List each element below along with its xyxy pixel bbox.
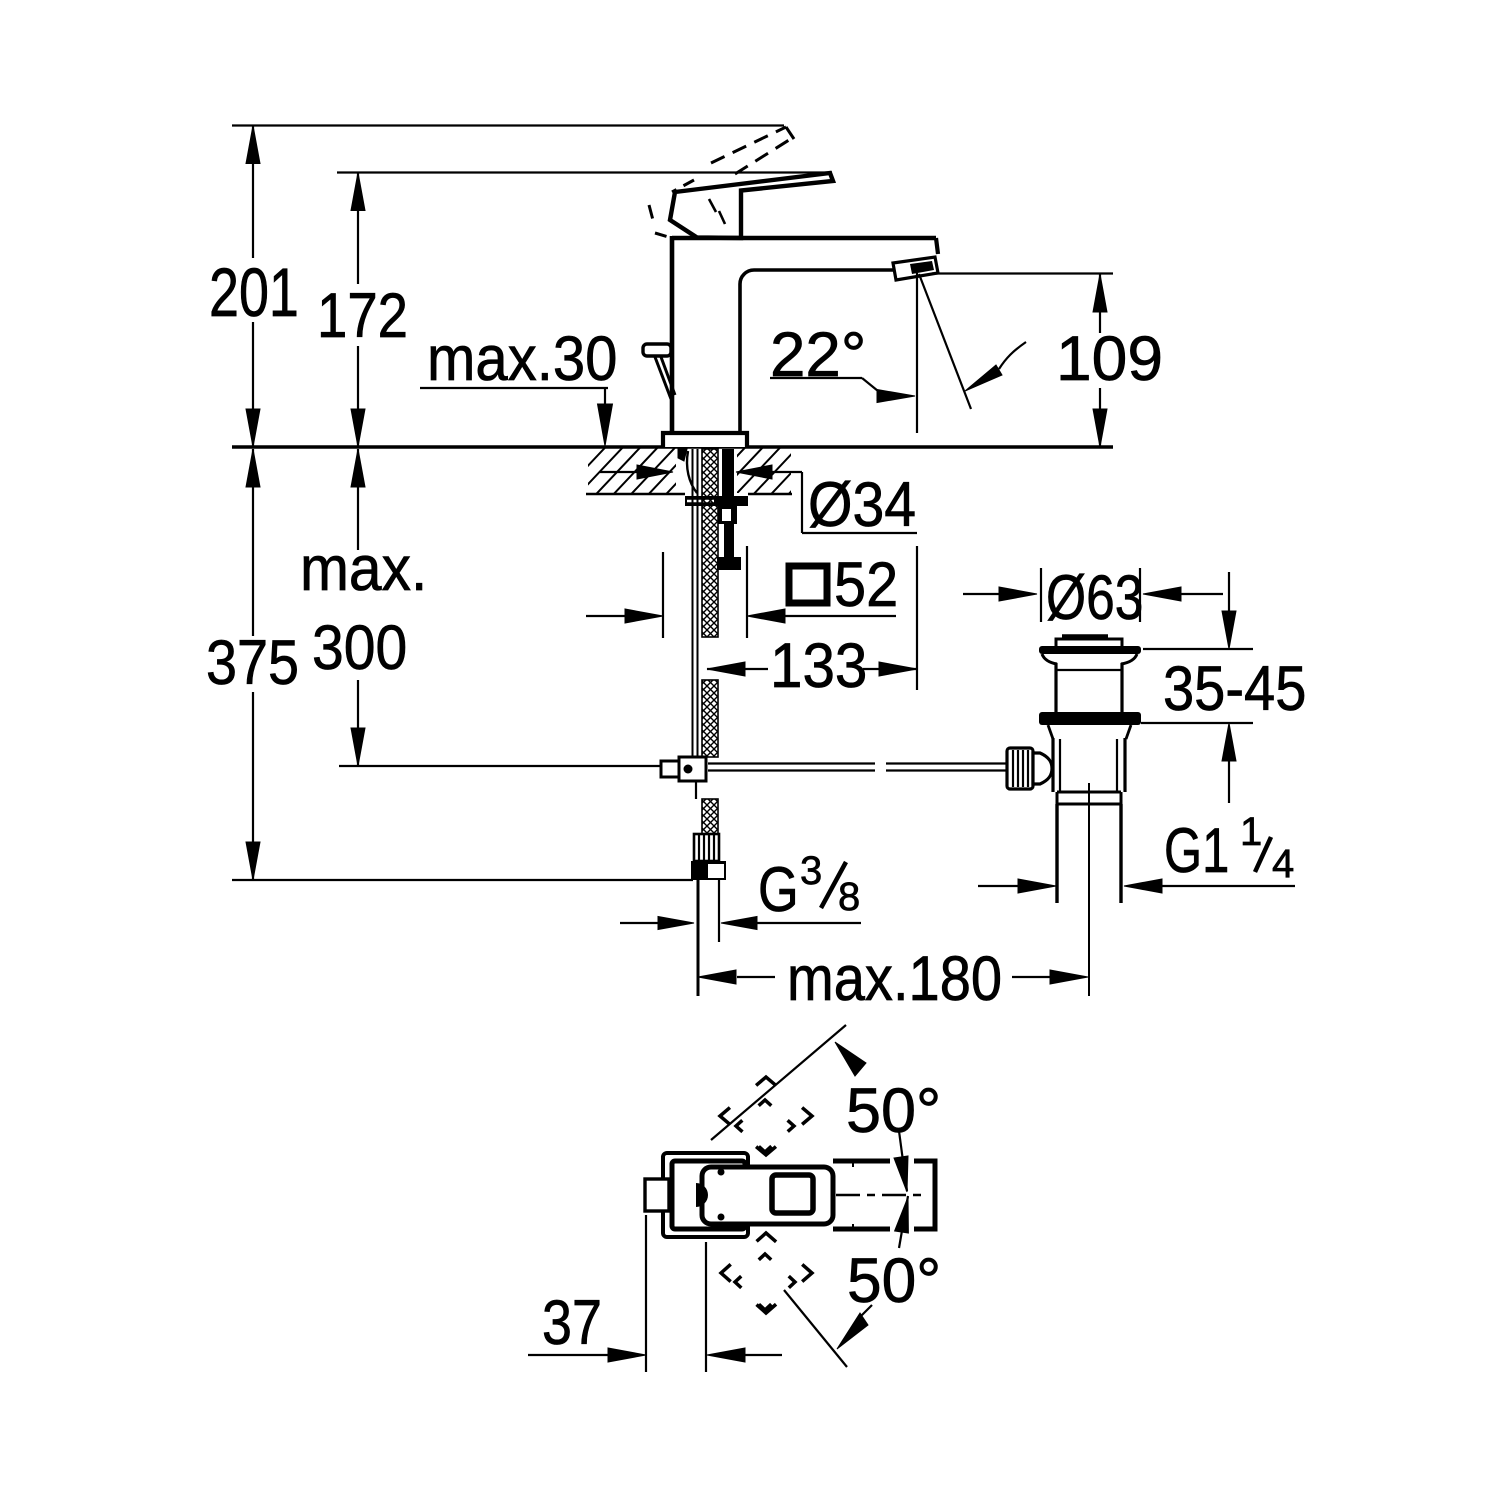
faucet handle raised position (dashed)	[711, 127, 786, 163]
svg-text:G1: G1	[1164, 816, 1229, 886]
top view centerline dash-dot	[836, 1194, 926, 1196]
dim 35-45	[1143, 648, 1253, 650]
dim 52	[662, 552, 664, 638]
spout underside	[740, 270, 893, 433]
svg-text:1: 1	[1240, 810, 1262, 854]
valve knurled knob	[1007, 748, 1033, 789]
dim line max 375 vertical below counter	[252, 449, 254, 636]
top view cartridge D mark	[696, 1183, 708, 1207]
pop-up pull rod knob (side view)	[643, 344, 671, 356]
svg-text:max.30: max.30	[427, 324, 618, 394]
horizontal pop-up linkage rod	[708, 762, 875, 764]
svg-text:35-45: 35-45	[1163, 654, 1306, 724]
drain valve flange disc	[1039, 646, 1141, 654]
supply nut	[691, 861, 726, 880]
counter hatching	[540, 445, 853, 498]
braided supply hose (crosshatch)	[702, 449, 718, 637]
dashed handle rotated +50 (upper diamonds)	[720, 1077, 812, 1155]
svg-text:4: 4	[1272, 842, 1294, 886]
dim line 109 vertical	[1099, 274, 1101, 333]
curved rod inside hole	[687, 451, 697, 493]
dim line 172 vertical	[357, 173, 359, 285]
dim line max 300 vertical below counter	[357, 449, 359, 550]
mounting bracket below washer	[717, 506, 741, 570]
dim reference line 201 top	[232, 124, 784, 126]
svg-text:Ø34: Ø34	[808, 470, 916, 540]
rod stub below clamp	[695, 781, 697, 799]
water stream vertical reference	[916, 273, 918, 433]
top view handle	[702, 1167, 833, 1224]
mounting nut black bar right of hose	[722, 449, 734, 497]
dashed handle rotated -50 (lower diamonds)	[721, 1233, 812, 1313]
top view pop-up knob	[645, 1179, 669, 1211]
svg-text:G: G	[758, 855, 799, 925]
svg-text:max.: max.	[300, 534, 427, 604]
label square52 symbol	[789, 566, 827, 603]
svg-text:52: 52	[834, 550, 898, 620]
top view body square	[672, 1161, 745, 1229]
valve neck	[1054, 663, 1057, 713]
counter section bottom line	[586, 493, 685, 496]
dim G1 1/4	[978, 885, 1020, 887]
water stream 22deg line	[919, 274, 971, 409]
drain valve plug cap	[1062, 634, 1108, 637]
flange fillets	[1042, 654, 1057, 664]
dim max.180	[737, 976, 775, 978]
knob boss	[1033, 753, 1052, 784]
dim Ø34 arrows + leader	[600, 471, 639, 473]
top view base plate square	[663, 1153, 748, 1237]
pop-up rod vertical (double line)	[692, 449, 694, 757]
svg-text:133: 133	[770, 631, 867, 701]
svg-text:22°: 22°	[770, 320, 866, 390]
ref line 375 bottom	[232, 879, 693, 881]
svg-text:50°: 50°	[846, 1076, 941, 1146]
flange underside	[1048, 725, 1053, 739]
faucet handle (side view, solid)	[670, 173, 833, 238]
gasket (black)	[1039, 712, 1141, 725]
top view handle end cap	[772, 1175, 813, 1213]
ref line 109 top (outlet level)	[932, 272, 1113, 274]
svg-text:109: 109	[1056, 324, 1163, 394]
faucet body and spout outline	[672, 236, 936, 241]
50deg line lower	[784, 1290, 847, 1367]
tailpipe centerline	[1088, 783, 1090, 996]
dim G 3/8	[620, 922, 658, 924]
countertop line	[232, 445, 1113, 449]
svg-text:300: 300	[312, 613, 407, 683]
svg-text:max.180: max.180	[787, 944, 1002, 1014]
aerator (spout outlet)	[893, 257, 938, 280]
svg-text:50°: 50°	[847, 1246, 941, 1316]
washer below counter	[685, 496, 748, 506]
dim line 201 vertical	[252, 126, 254, 259]
collar	[1057, 791, 1121, 794]
svg-text:201: 201	[209, 254, 299, 331]
dim 133	[707, 668, 768, 670]
valve body	[1051, 738, 1054, 792]
swing arc arrows at centerline	[899, 1131, 907, 1191]
top view spout	[833, 1161, 935, 1229]
clamp connector	[661, 761, 679, 777]
50deg line upper	[711, 1025, 846, 1140]
supply pipe	[697, 880, 700, 996]
svg-text:375: 375	[206, 628, 299, 698]
svg-text:8: 8	[838, 875, 860, 919]
ref line max300 bottom (popup rod level)	[339, 765, 661, 767]
svg-text:172: 172	[317, 281, 408, 351]
svg-text:3: 3	[800, 849, 822, 893]
dim 37	[645, 1215, 647, 1372]
tailpipe	[1055, 804, 1058, 903]
threaded shank hole black edge left	[678, 449, 687, 461]
svg-text:37: 37	[542, 1288, 602, 1358]
dim Ø63	[1040, 568, 1042, 622]
svg-text:Ø63: Ø63	[1046, 563, 1143, 633]
dim reference line 172 top	[337, 171, 832, 173]
hose end fitting (striped)	[694, 834, 719, 861]
faucet base plate	[663, 433, 747, 447]
